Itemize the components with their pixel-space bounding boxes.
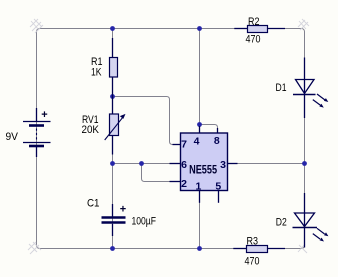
svg-text:470: 470	[246, 33, 261, 45]
svg-text:R3: R3	[247, 236, 259, 248]
svg-text:9V: 9V	[6, 131, 19, 143]
pin 6 stub	[170, 163, 181, 165]
pin 4 stub	[199, 126, 201, 133]
svg-text:7: 7	[181, 138, 187, 150]
svg-text:6: 6	[181, 159, 187, 171]
pin 8 stub	[217, 128, 219, 133]
svg-text:R2: R2	[248, 16, 260, 28]
svg-text:NE555: NE555	[189, 162, 217, 176]
wire pin2 branch	[142, 164, 181, 182]
svg-text:5: 5	[215, 181, 221, 193]
pin 2 stub	[170, 181, 181, 183]
resistor R1	[110, 38, 118, 97]
svg-text:8: 8	[214, 135, 220, 147]
resistor R3	[233, 246, 285, 253]
wire Vcc to IC pins 4,8	[199, 29, 201, 125]
capacitor C1 100uF	[102, 204, 126, 236]
svg-text:1K: 1K	[91, 67, 102, 79]
node top wire / R1	[110, 26, 115, 31]
svg-text:C1: C1	[87, 198, 100, 210]
node top wire / Vcc branch	[197, 26, 202, 31]
node pin1/ground	[197, 246, 202, 251]
wire pin6 to RV1/C1 node	[113, 163, 181, 165]
LED D2	[293, 193, 329, 248]
resistor R2	[234, 26, 285, 33]
node C1/ground	[110, 246, 115, 251]
potentiometer RV1	[105, 97, 126, 155]
wire pin7 to R1/RV1 node	[113, 97, 181, 145]
svg-text:D1: D1	[276, 82, 287, 94]
node RV1/C1/pin6	[110, 161, 115, 166]
LED D1	[293, 58, 328, 119]
node pin4/pin8 supply	[197, 122, 202, 127]
node pin6/pin2 branch	[139, 161, 144, 166]
node R1/RV1/pin7	[110, 94, 115, 99]
svg-text:2: 2	[181, 178, 187, 190]
svg-text:3: 3	[220, 159, 226, 171]
node junction dots	[110, 26, 307, 251]
pin 1 stub	[199, 191, 201, 203]
wire pin8 supply link	[200, 125, 218, 134]
svg-text:470: 470	[245, 255, 260, 267]
svg-text:1: 1	[195, 181, 201, 193]
svg-text:100µF: 100µF	[132, 216, 157, 228]
svg-text:D2: D2	[276, 217, 287, 229]
svg-text:+: +	[120, 203, 126, 215]
pin 5 stub	[218, 191, 220, 203]
battery B1 9V	[23, 108, 51, 157]
op IC U1 NE555	[170, 126, 238, 203]
node pin3/D1/D2	[302, 161, 307, 166]
wire corner dither artifacts	[28, 19, 309, 254]
wire pin3 output to LEDs node	[228, 163, 305, 165]
wire pin1 to ground	[199, 203, 201, 249]
wire R1/RV1/C1 branch vertical	[112, 29, 114, 249]
svg-text:+: +	[41, 109, 47, 121]
pin 3 stub	[228, 163, 238, 165]
svg-text:20K: 20K	[82, 124, 100, 136]
wire outer supply/ground loop	[37, 29, 305, 249]
svg-text:4: 4	[194, 136, 200, 148]
pin 7 stub	[173, 144, 181, 146]
